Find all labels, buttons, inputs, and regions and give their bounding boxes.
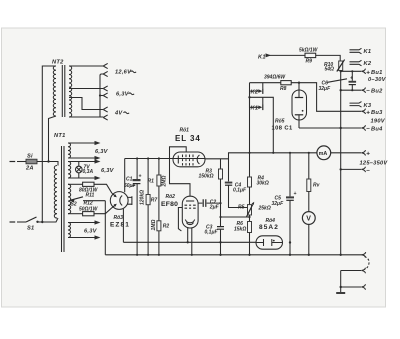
svg-text:2μF: 2μF <box>209 205 220 211</box>
connector -Bu4 <box>361 125 365 130</box>
svg-text:R9: R9 <box>306 58 313 64</box>
svg-text:+: + <box>366 69 370 76</box>
svg-text:190V: 190V <box>371 118 386 124</box>
wire 108C1 cathode to -Bu4 <box>299 127 361 129</box>
minus bus vertical <box>340 71 342 255</box>
milliammeter mA <box>317 146 331 160</box>
jack row 3 <box>340 286 342 288</box>
switch S1 <box>10 217 59 232</box>
svg-text:0,1μF: 0,1μF <box>205 230 219 236</box>
wire NT2 primary bottom to fuse line <box>49 116 57 162</box>
connector +Bu3 <box>361 109 365 114</box>
svg-text:0–30V: 0–30V <box>368 77 387 83</box>
capacitor C3 0.1uF <box>205 224 225 235</box>
svg-text:6,3V: 6,3V <box>84 229 98 235</box>
svg-text:32μF: 32μF <box>272 201 285 207</box>
svg-text:–: – <box>366 125 370 132</box>
wire R5/R6 junction to EF80 anode branch <box>221 216 250 218</box>
jack K2 <box>250 83 263 98</box>
connector pair K1 (top right) <box>350 48 362 54</box>
svg-text:S1: S1 <box>27 226 34 232</box>
svg-text:Rö1: Rö1 <box>180 128 190 134</box>
wire EL34 grid loop to EF80 anode <box>170 147 191 196</box>
svg-text:Rö2: Rö2 <box>166 194 176 200</box>
svg-text:50Ω/1W: 50Ω/1W <box>79 206 99 212</box>
resistor R8 394ohm/6W <box>264 75 361 112</box>
svg-text:EL 34: EL 34 <box>175 134 201 143</box>
wire K1 feed with arrow <box>266 53 272 57</box>
NT1 winding 6.3V bottom <box>68 220 101 239</box>
wire NT2 primary top to S1 line <box>42 66 56 222</box>
svg-text:K1: K1 <box>258 55 266 61</box>
svg-text:108 C1: 108 C1 <box>272 126 293 132</box>
wire rail to + output <box>331 152 361 154</box>
wire K-net down to rail <box>249 97 251 153</box>
HT rail <box>125 153 317 159</box>
svg-text:120kΩ: 120kΩ <box>140 190 146 205</box>
dashed link between jacks <box>365 257 370 270</box>
svg-text:K2: K2 <box>364 61 372 67</box>
voltmeter V <box>302 212 315 256</box>
svg-text:125–350V: 125–350V <box>360 160 389 166</box>
svg-text:5kΩ/1W: 5kΩ/1W <box>299 47 319 53</box>
capacitor C4 0.1uF <box>225 182 247 194</box>
connector +Bu1 <box>361 69 365 74</box>
resistor R1 2Mohm <box>148 159 168 255</box>
svg-text:50μF: 50μF <box>124 183 137 189</box>
svg-text:mA: mA <box>319 151 328 157</box>
wire EZ81 heater down <box>122 209 124 243</box>
svg-text:EF80: EF80 <box>161 201 178 208</box>
svg-text:R2: R2 <box>163 224 170 230</box>
wire EF80 cathode <box>187 228 189 242</box>
svg-text:12,6V: 12,6V <box>115 70 132 76</box>
svg-text:Si: Si <box>27 154 33 160</box>
svg-text:25kΩ: 25kΩ <box>258 205 271 211</box>
reference tube 85A2 <box>256 218 283 249</box>
resistor R6 15kohm <box>234 221 252 256</box>
connector pair 12.6V <box>103 63 108 76</box>
capacitor C5 32uF <box>272 153 297 256</box>
svg-text:Bu3: Bu3 <box>371 110 383 116</box>
svg-text:+: + <box>139 173 142 179</box>
svg-text:K1: K1 <box>364 49 372 55</box>
svg-text:Bu4: Bu4 <box>371 127 383 133</box>
svg-text:NT2: NT2 <box>52 60 64 66</box>
svg-text:–: – <box>366 87 370 94</box>
switch S2 tap <box>69 197 105 208</box>
connector pair K3 <box>350 102 362 108</box>
resistor Rv <box>307 153 321 212</box>
svg-text:R11: R11 <box>86 192 95 198</box>
svg-text:2A: 2A <box>25 166 34 172</box>
wire EF80 heater <box>191 228 193 255</box>
ground bus (bottom) <box>105 254 361 256</box>
jack row 2 <box>341 270 361 272</box>
svg-text:V: V <box>306 216 311 223</box>
svg-text:R7: R7 <box>151 197 158 203</box>
ground symbol <box>340 287 342 292</box>
svg-text:54Ω: 54Ω <box>325 67 335 73</box>
svg-text:NT1: NT1 <box>54 133 66 139</box>
svg-text:Bu1: Bu1 <box>371 70 383 76</box>
pentode EF80 <box>161 194 198 228</box>
reference tube 108C1 <box>272 83 307 132</box>
svg-text:+: + <box>366 109 370 116</box>
rectifier tube EZ81 <box>110 192 132 229</box>
wire NT2 secondary return <box>69 96 103 118</box>
K-network top wire <box>250 82 281 84</box>
svg-text:150kΩ: 150kΩ <box>199 174 214 180</box>
pentode EL34 <box>173 128 205 167</box>
svg-text:4V: 4V <box>114 111 123 117</box>
wire rail jog to R5 wiper <box>229 159 248 208</box>
cathode line EZ81 heater to 85A2 <box>123 241 256 243</box>
svg-text:0,1μF: 0,1μF <box>233 188 247 194</box>
capacitor C2 2uF <box>198 199 220 210</box>
svg-text:S2: S2 <box>71 202 77 208</box>
resistor R12 50ohm/1W <box>68 201 112 216</box>
resistor R7 <box>140 159 158 255</box>
svg-text:R8: R8 <box>280 86 287 92</box>
svg-text:0,3A: 0,3A <box>83 169 94 175</box>
svg-text:R5: R5 <box>238 205 245 211</box>
svg-text:1MΩ: 1MΩ <box>151 220 157 231</box>
svg-text:R1: R1 <box>148 179 155 185</box>
capacitor C6 32uF <box>319 71 357 92</box>
svg-text:394Ω/6W: 394Ω/6W <box>264 75 286 81</box>
svg-text:+: + <box>294 191 297 197</box>
wire -Bu2 <box>340 89 342 91</box>
svg-text:Rö5: Rö5 <box>275 118 285 124</box>
connector pair 4V <box>103 107 108 120</box>
svg-text:+: + <box>366 151 370 158</box>
svg-text:Rö3: Rö3 <box>114 215 124 221</box>
wire NT2 secondary 6.3V tap <box>69 88 103 90</box>
wire NT2 secondary 4V tap <box>69 98 103 110</box>
potentiometer R5 25kohm <box>238 202 271 222</box>
svg-text:+: + <box>350 76 353 82</box>
svg-text:Bu2: Bu2 <box>371 89 383 95</box>
svg-text:6,3V: 6,3V <box>101 168 115 174</box>
connector - 125-350V <box>340 168 342 170</box>
connector pair K2 <box>350 60 362 66</box>
pilot lamp 7V 0.3A <box>78 162 80 179</box>
svg-text:K1: K1 <box>251 106 259 112</box>
svg-text:C1: C1 <box>126 177 133 183</box>
svg-text:EZ81: EZ81 <box>110 222 130 229</box>
wire EF80 grid <box>178 208 182 232</box>
wire to +Bu1 <box>341 70 361 72</box>
svg-text:32μF: 32μF <box>319 86 332 92</box>
transformer NT2 <box>52 60 72 118</box>
svg-text:85A2: 85A2 <box>259 224 279 231</box>
resistor R9 5kohm/1W <box>299 47 340 64</box>
NT1 winding 6.3V top <box>68 141 109 160</box>
svg-text:6,3V: 6,3V <box>116 92 130 98</box>
capacitor C1 50uF <box>124 159 142 255</box>
wire HV tap to ground bus <box>104 201 106 255</box>
ground bus end connector <box>340 254 342 256</box>
svg-text:30kΩ: 30kΩ <box>257 181 269 187</box>
transformer NT1 <box>54 133 66 252</box>
adjustable resistor R10 54ohm <box>324 60 345 73</box>
connector + 125-350V <box>361 150 365 155</box>
resistor R4 30kohm <box>248 153 269 205</box>
resistor R11 80ohm/1W <box>68 182 112 198</box>
resistor R3 150kohm <box>199 159 223 255</box>
NT1 winding 6.3V pilot lamp section <box>68 159 115 180</box>
connector pair 6.3V <box>103 86 108 98</box>
svg-text:6,3V: 6,3V <box>95 149 109 155</box>
svg-text:K3: K3 <box>364 103 372 109</box>
svg-text:K2: K2 <box>251 89 259 95</box>
svg-text:–: – <box>366 167 370 174</box>
resistor R2 1Mohm <box>151 220 169 231</box>
svg-text:15kΩ: 15kΩ <box>234 226 246 232</box>
wire EZ81 cathode up to rail <box>124 159 126 193</box>
page area <box>2 28 386 307</box>
NT1 HV winding with R11 R12 S2 <box>68 184 71 213</box>
fuse Si 2A <box>10 154 59 172</box>
jack K1 (lower) <box>248 96 273 153</box>
node R10 bottom <box>340 70 342 72</box>
svg-text:2MΩ: 2MΩ <box>162 176 168 188</box>
wire NT2 secondary 12.6V tap <box>69 65 103 67</box>
